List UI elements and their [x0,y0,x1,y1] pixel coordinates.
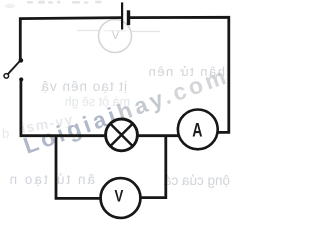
svg-text:A: A [192,120,202,142]
svg-text:ộng của cá: ộng của cá [163,173,230,188]
svg-text:ịt tạo nên vậ: ịt tạo nên vậ [40,79,127,94]
svg-text:b: b [2,126,9,141]
svg-text:V: V [115,186,124,205]
svg-text:V: V [111,28,120,42]
svg-text:ân tử tạo n: ân tử tạo n [8,172,95,187]
